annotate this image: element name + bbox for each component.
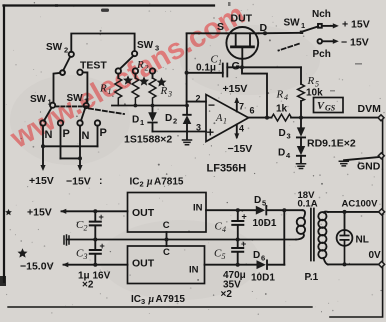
svg-text:−15.0V: −15.0V [20, 261, 54, 273]
svg-text:S: S [217, 21, 224, 33]
svg-text:2: 2 [173, 117, 177, 126]
svg-text:−15V: −15V [66, 176, 91, 188]
svg-text:3: 3 [155, 44, 159, 53]
svg-text:SW: SW [284, 18, 301, 29]
svg-text:μ: μ [146, 177, 153, 188]
svg-text:4: 4 [239, 124, 244, 134]
svg-text:10D1: 10D1 [253, 218, 277, 229]
svg-text:1: 1 [108, 87, 112, 96]
svg-text:1: 1 [48, 98, 52, 107]
svg-text:0V: 0V [369, 250, 382, 261]
svg-text:0.1μ: 0.1μ [196, 63, 216, 74]
svg-text:μ: μ [148, 294, 155, 305]
svg-text:A7915: A7915 [156, 294, 186, 305]
svg-text:+: + [99, 212, 104, 222]
svg-text:−15V: −15V [228, 143, 253, 155]
svg-text:4: 4 [284, 93, 288, 102]
svg-text:OUT: OUT [132, 207, 155, 219]
svg-text:C: C [163, 247, 170, 258]
svg-text:2: 2 [145, 64, 149, 73]
svg-text:IN: IN [193, 203, 203, 214]
svg-text:3: 3 [141, 297, 145, 306]
svg-text:1: 1 [140, 118, 144, 127]
svg-text:R: R [136, 59, 144, 71]
svg-text:6: 6 [261, 254, 265, 263]
svg-text:4: 4 [222, 225, 226, 234]
svg-text:N: N [82, 130, 90, 142]
svg-text:2: 2 [84, 224, 88, 233]
svg-text:D: D [279, 128, 286, 139]
svg-text:N: N [45, 129, 53, 141]
svg-text:GND: GND [357, 161, 381, 173]
svg-text:D: D [260, 22, 268, 34]
svg-text:+: + [100, 241, 105, 251]
svg-text:4: 4 [286, 151, 291, 160]
svg-text:A7815: A7815 [154, 177, 184, 188]
svg-text:3: 3 [287, 132, 291, 141]
svg-text:6: 6 [250, 106, 255, 116]
svg-text:7: 7 [239, 102, 244, 112]
svg-text:IC: IC [131, 294, 141, 305]
svg-text:3: 3 [167, 90, 172, 99]
svg-text:D: D [278, 148, 285, 159]
svg-text:3: 3 [196, 123, 201, 133]
svg-text:IC: IC [130, 177, 140, 188]
svg-text:5: 5 [262, 199, 266, 208]
svg-text:DUT: DUT [231, 13, 253, 25]
svg-text:1: 1 [223, 117, 227, 126]
svg-text:1: 1 [218, 58, 222, 67]
svg-text:10k: 10k [306, 88, 323, 99]
svg-text:2: 2 [64, 46, 68, 55]
svg-text:− 15V: − 15V [341, 37, 369, 49]
svg-text:3: 3 [83, 252, 88, 261]
svg-text:C: C [163, 220, 170, 231]
svg-text:G: G [232, 61, 241, 73]
svg-text:+: + [241, 239, 246, 249]
svg-text:0.1A: 0.1A [298, 199, 318, 210]
svg-text:Pch: Pch [313, 49, 331, 60]
svg-text:−: − [208, 98, 215, 112]
svg-text:D: D [132, 115, 139, 126]
svg-text:LF356H: LF356H [207, 163, 247, 175]
svg-text:×2: ×2 [221, 289, 233, 300]
svg-text:+15V: +15V [27, 207, 52, 219]
svg-text:SW: SW [67, 93, 84, 104]
svg-text:Nch: Nch [312, 9, 331, 20]
svg-text:RD9.1E×2: RD9.1E×2 [307, 138, 356, 150]
svg-text:DVM: DVM [358, 103, 382, 115]
svg-text:GS: GS [325, 104, 336, 113]
svg-text:SW: SW [137, 40, 154, 51]
svg-text:SW: SW [46, 42, 63, 53]
svg-text:1: 1 [301, 21, 305, 30]
svg-text:NL: NL [356, 235, 369, 246]
svg-text:V: V [317, 101, 325, 112]
svg-text:+: + [242, 212, 247, 222]
svg-text:D: D [253, 250, 260, 261]
svg-text:SW: SW [30, 94, 47, 105]
svg-text:+15V: +15V [29, 175, 54, 187]
svg-text:P: P [63, 128, 70, 140]
svg-text:1: 1 [84, 97, 88, 106]
svg-text:10D1: 10D1 [251, 273, 275, 284]
svg-text:IN: IN [189, 265, 199, 276]
svg-text:D: D [254, 195, 261, 206]
svg-text:P.1: P.1 [305, 272, 319, 283]
svg-text:+ 15V: + 15V [342, 19, 370, 31]
svg-text:R: R [307, 75, 315, 87]
svg-text:1S1588×2: 1S1588×2 [124, 134, 172, 146]
svg-text::: : [99, 175, 103, 187]
svg-text:×2: ×2 [82, 280, 94, 291]
svg-text:R: R [276, 89, 284, 101]
svg-text:D: D [165, 113, 172, 124]
svg-text:5: 5 [222, 252, 226, 261]
svg-text:OUT: OUT [132, 258, 155, 270]
svg-text:2: 2 [196, 94, 201, 104]
svg-text:R: R [99, 83, 107, 95]
svg-text:AC100V: AC100V [342, 199, 379, 210]
svg-text:A: A [215, 113, 223, 124]
svg-text:+15V: +15V [223, 83, 248, 95]
svg-text:1k: 1k [276, 104, 288, 115]
svg-text:2: 2 [140, 180, 144, 189]
svg-text:P: P [100, 127, 107, 139]
svg-text:+: + [207, 125, 215, 140]
svg-text:R: R [160, 85, 168, 97]
svg-text:TEST: TEST [80, 60, 107, 72]
